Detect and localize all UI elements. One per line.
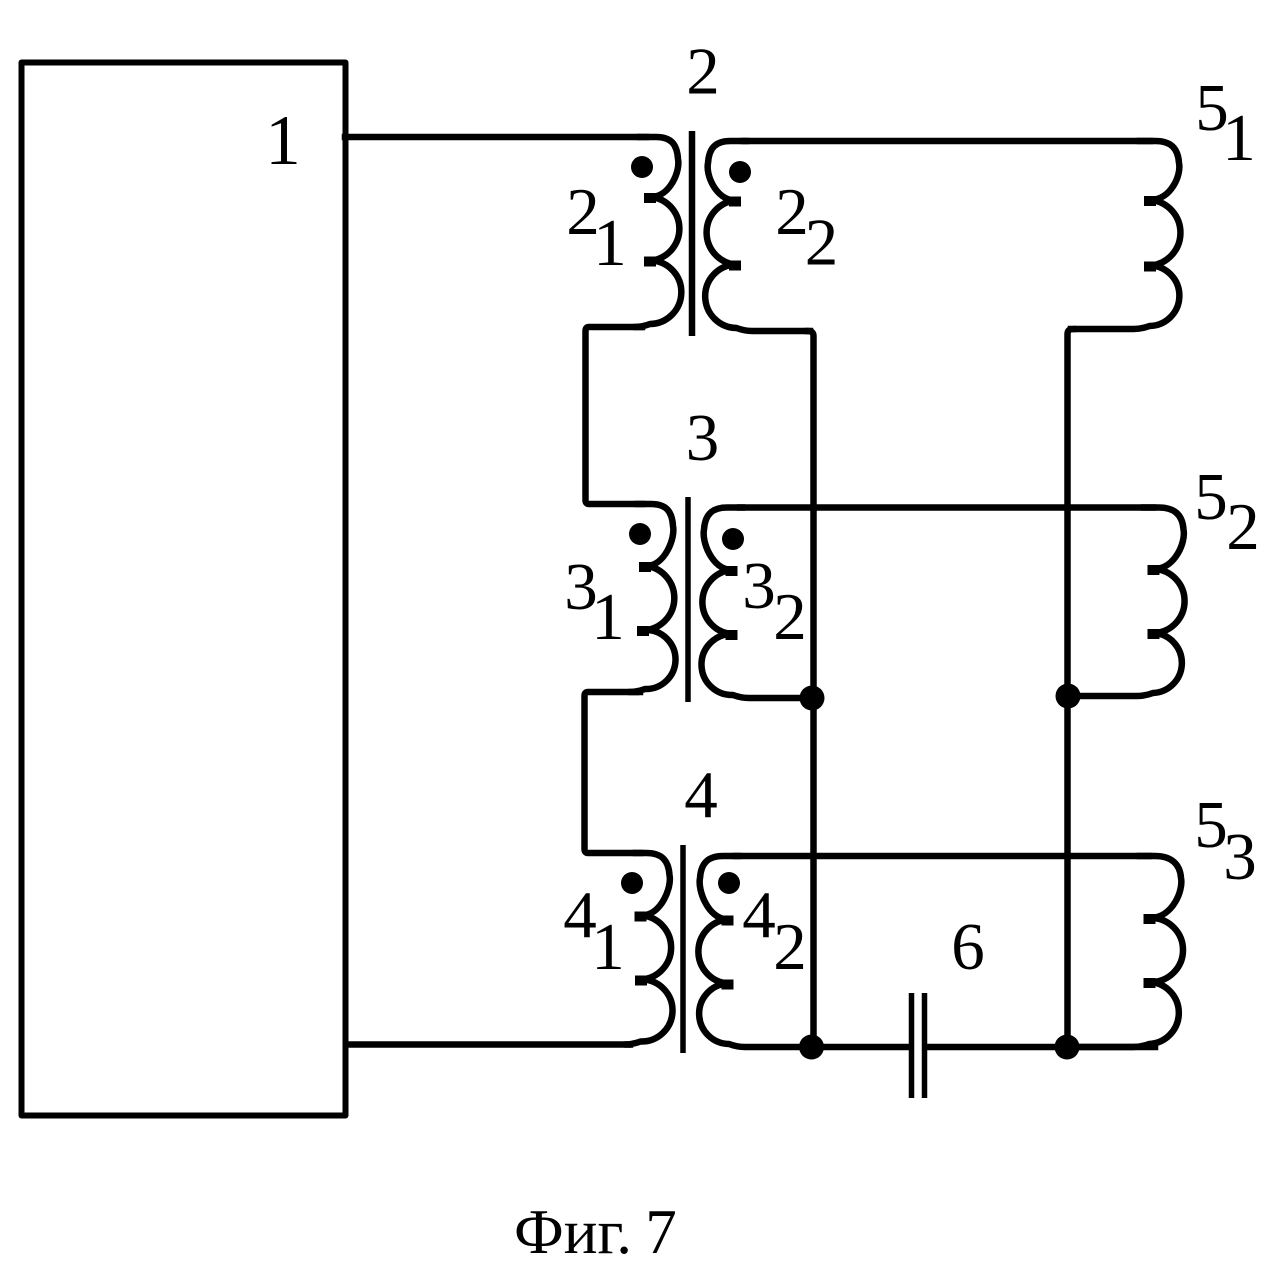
winding 4_2 (secondary of transformer 4) [698, 856, 809, 1047]
svg-text:1: 1 [1222, 101, 1256, 175]
winding 5_1 [1071, 141, 1180, 329]
turn pinch of 2_2 lower [729, 261, 741, 271]
svg-text:4: 4 [684, 758, 718, 832]
core of transformer 2 [689, 131, 696, 336]
wire: capacitor right plate to 5_3 bottom [928, 1044, 1155, 1051]
wire: 3_2 top to 5_2 top [740, 504, 1153, 511]
polarity dot of 3_1 [629, 523, 651, 545]
turn pinch of 3_1 upper [639, 562, 651, 572]
turn pinch of 5_1 lower [1144, 262, 1156, 272]
capacitor 6 left plate [909, 993, 915, 1098]
turn pinch of 5_1 upper [1144, 196, 1156, 206]
svg-text:4: 4 [742, 878, 776, 952]
svg-text:3: 3 [686, 401, 720, 475]
winding 2_1 (primary of transformer 2) [634, 137, 681, 327]
turn pinch of 2_2 upper [729, 197, 741, 207]
turn pinch of 4_2 upper [722, 916, 734, 926]
polarity dot of 3_2 [722, 528, 744, 550]
wire: bottom node to capacitor left plate [811, 1044, 908, 1051]
wire: 4_1 bottom to block 1 [346, 1041, 630, 1048]
turn pinch of 5_2 upper [1148, 565, 1160, 575]
svg-text:3: 3 [1223, 820, 1257, 894]
svg-text:2: 2 [773, 910, 807, 984]
core of transformer 4 [680, 845, 686, 1053]
svg-text:2: 2 [805, 206, 839, 280]
wire: 2_2 top to 5_1 top [744, 138, 1150, 145]
junction node: far-right chain / bottom wire [1055, 1035, 1080, 1060]
wire: 2_1 bottom to 3_1 top (left chain) [586, 327, 643, 504]
svg-text:5: 5 [1194, 460, 1228, 534]
polarity dot of 4_1 [621, 872, 643, 894]
junction node: 5_2 bottom / far-right chain [1056, 684, 1081, 709]
turn pinch of 4_1 upper [635, 912, 647, 922]
turn pinch of 4_1 lower [635, 976, 647, 986]
junction node: 3_2 bottom / right chain [800, 686, 825, 711]
winding 3_2 (secondary of transformer 3) [701, 508, 809, 699]
winding 5_3 [1071, 856, 1183, 1047]
polarity dot of 2_1 [631, 156, 653, 178]
polarity dot of 4_2 [718, 872, 740, 894]
svg-text:Фиг.: Фиг. [514, 1197, 632, 1266]
winding 4_1 (primary of transformer 4) [625, 853, 673, 1045]
polarity dot of 2_2 [729, 161, 751, 183]
svg-text:2: 2 [773, 580, 807, 654]
junction node: right chain / bottom wire [799, 1035, 824, 1060]
wire: block 1 top output to 2_1 [345, 134, 646, 141]
winding 2_2 (secondary of transformer 2) [705, 141, 810, 331]
turn pinch of 5_3 upper [1144, 914, 1156, 924]
svg-text:1: 1 [591, 910, 625, 984]
core of transformer 3 [685, 497, 691, 702]
svg-text:3: 3 [742, 549, 776, 623]
turn pinch of 2_1 lower [644, 257, 656, 267]
wire: 3_1 bottom to 4_1 top (left chain) [585, 692, 641, 853]
svg-text:2: 2 [775, 175, 809, 249]
turn pinch of 3_1 lower [637, 626, 649, 636]
block 1 (converter) [22, 63, 346, 1116]
svg-text:1: 1 [591, 580, 625, 654]
wire: 4_2 top to 5_3 top [736, 853, 1149, 860]
svg-text:2: 2 [686, 35, 720, 109]
winding 3_1 (primary of transformer 3) [629, 504, 676, 692]
svg-text:7: 7 [645, 1197, 677, 1266]
svg-text:1: 1 [265, 102, 301, 180]
wire: 2_2 bottom down right chain to bottom node [808, 331, 814, 1047]
svg-text:6: 6 [951, 910, 985, 984]
turn pinch of 3_2 lower [726, 630, 738, 640]
turn pinch of 4_2 lower [722, 980, 734, 990]
turn pinch of 3_2 upper [726, 566, 738, 576]
turn pinch of 5_2 lower [1148, 629, 1160, 639]
winding 5_2 [1072, 508, 1185, 697]
turn pinch of 2_1 upper [644, 193, 656, 203]
svg-text:2: 2 [1226, 490, 1260, 564]
svg-text:1: 1 [593, 206, 627, 280]
wire: 5_1 bottom down far-right chain to bottom node [1068, 329, 1074, 1047]
turn pinch of 5_3 lower [1144, 978, 1156, 988]
capacitor 6 right plate [922, 993, 928, 1098]
